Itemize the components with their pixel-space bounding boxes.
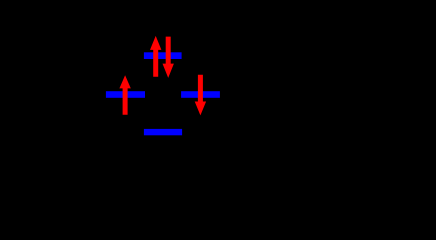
energy level psi4 (top antibonding orbital bar) xyxy=(144,52,182,59)
energy level psi1 (bottom bonding orbital bar, empty) xyxy=(144,129,182,135)
energy level psi3 (middle-right nonbonding orbital bar) xyxy=(181,91,220,98)
electron spin-down arrow in middle-right orbital xyxy=(195,75,206,116)
electron spin-down arrow in top orbital xyxy=(163,37,174,78)
electron spin-up arrow in middle-left orbital xyxy=(119,75,130,115)
electron spin-up arrow in top orbital xyxy=(150,36,161,77)
energy level psi2 (middle-left nonbonding orbital bar) xyxy=(106,91,145,98)
